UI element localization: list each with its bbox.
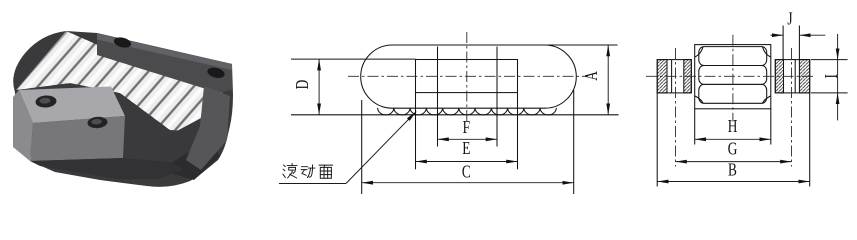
svg-text:I: I (822, 74, 841, 78)
svg-text:G: G (728, 140, 738, 159)
svg-text:D: D (293, 80, 312, 90)
svg-text:F: F (463, 118, 471, 137)
svg-text:J: J (787, 10, 792, 29)
svg-text:C: C (462, 163, 471, 182)
svg-text:B: B (728, 161, 737, 180)
svg-text:H: H (728, 117, 738, 136)
svg-text:A: A (582, 71, 601, 81)
svg-text:E: E (462, 139, 470, 158)
